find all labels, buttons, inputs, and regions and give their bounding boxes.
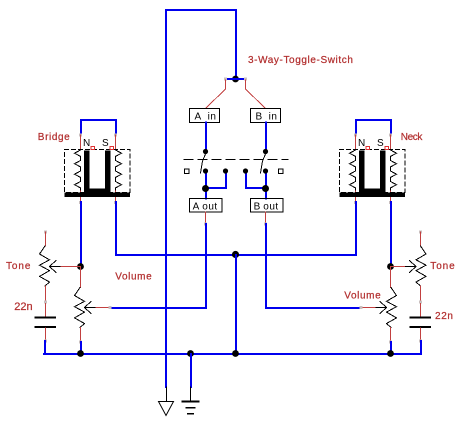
svg-text:N: N <box>83 138 90 149</box>
wire volume left bottom red <box>80 328 82 343</box>
svg-text:22n: 22n <box>435 311 454 322</box>
wire mid bus junction down to ground bus <box>235 255 237 354</box>
node junction A out <box>202 185 209 192</box>
svg-text:Neck: Neck <box>401 132 424 143</box>
pickup neck <box>340 120 406 204</box>
wire volume left to ground bus <box>80 342 82 353</box>
node ground bus dot volume left <box>77 350 84 357</box>
wiper tone left arrow <box>50 261 62 273</box>
wire bridge right terminal to mid bus to neck left terminal <box>116 202 356 255</box>
wire volume right bottom red <box>390 328 392 343</box>
wire neck red top stubs <box>355 135 357 150</box>
wire top loop from toggle common over to signal ground drop <box>166 10 236 387</box>
switch contact B2 <box>263 168 268 173</box>
pin toggle stub right <box>244 78 247 81</box>
wire cap right bottom <box>420 328 422 341</box>
pin tone right bottom <box>419 301 422 304</box>
wire switch A2 contact to A junction <box>206 171 226 188</box>
pin cap left bottom <box>44 340 47 343</box>
switch mechanical dashed link <box>184 159 288 161</box>
node toggle common junction <box>232 76 239 83</box>
switch pole contact B <box>263 149 268 154</box>
resistor tone left body <box>40 246 50 286</box>
pin A out <box>204 223 207 226</box>
potentiometer tone right <box>391 231 427 304</box>
wire left junction to volume top <box>80 267 82 288</box>
switch lever B <box>261 154 266 173</box>
pin volume left bottom <box>79 341 82 344</box>
capacitor right plate bottom <box>410 326 432 328</box>
wire tone right top stub <box>420 232 422 246</box>
node ground bus dot center <box>232 350 239 357</box>
resistor tone right body <box>416 246 426 286</box>
wire neck coil top link <box>356 120 391 135</box>
coil bridge left <box>75 150 81 190</box>
node B in box <box>251 109 281 123</box>
pin bridge top right <box>114 134 117 137</box>
svg-text:Volume: Volume <box>115 272 152 283</box>
pin volume right wiper <box>360 306 363 309</box>
wire bridge red bottom stubs <box>80 190 82 202</box>
wire B in to switch pole <box>265 123 267 152</box>
wire B out red stub <box>265 212 267 224</box>
wire B out down and right to right volume wiper <box>266 224 361 308</box>
ground earth <box>183 387 199 414</box>
capacitor right plate top <box>410 317 432 319</box>
coil bridge right <box>116 150 122 190</box>
wire cap right top <box>420 304 422 317</box>
wire cap left bottom <box>45 328 47 341</box>
svg-text:Tone: Tone <box>430 261 455 272</box>
svg-text:3-Way-Toggle-Switch: 3-Way-Toggle-Switch <box>248 55 354 66</box>
switch S1 3-way toggle <box>184 154 288 173</box>
wire switch B2 contact to B out <box>265 171 267 199</box>
pin cap right bottom <box>419 340 422 343</box>
pin bridge magnet S <box>110 147 114 150</box>
pin bridge bottom left <box>79 201 82 204</box>
pin B out <box>264 223 267 226</box>
wire tone left top stub <box>45 232 47 246</box>
pin tone left top <box>44 231 47 234</box>
node B out box <box>251 199 284 213</box>
wire A out red stub <box>205 212 207 224</box>
wire volume left wiper red <box>96 307 110 309</box>
wire tone left wiper red <box>61 266 81 268</box>
pin toggle stub left <box>224 78 227 81</box>
svg-text:Tone: Tone <box>6 261 31 272</box>
wire red to A in <box>206 80 226 109</box>
capacitor left plate top <box>35 317 57 319</box>
wiper volume right arrow <box>375 302 387 314</box>
pin neck magnet S <box>385 147 389 150</box>
svg-text:Volume: Volume <box>344 291 381 302</box>
svg-text:Bridge: Bridge <box>38 132 71 143</box>
coil neck left <box>350 150 356 190</box>
node A out box <box>190 199 223 213</box>
node ground bus dot volume right <box>387 350 394 357</box>
wire neck right terminal down to right junction <box>390 202 392 266</box>
magnet neck base bar <box>340 193 406 198</box>
pickup neck body dashed box <box>340 150 406 193</box>
pickup bridge <box>65 120 131 204</box>
pin tone right top <box>419 231 422 234</box>
wire earth drop <box>190 354 192 387</box>
node left junction <box>77 263 84 270</box>
switch open terminal right <box>279 169 284 174</box>
wire ground bus <box>44 353 421 355</box>
wire cap left to ground bus <box>44 341 46 353</box>
wire tone left bottom <box>45 286 47 302</box>
node mid bus junction <box>232 251 239 258</box>
svg-text:S: S <box>102 138 109 149</box>
capacitor left plate bottom <box>35 326 57 328</box>
wire cap left top <box>45 304 47 317</box>
pin volume right bottom <box>389 341 392 344</box>
capacitor 22n left <box>35 304 57 354</box>
pin bridge bottom right <box>114 201 117 204</box>
wire switch A1 contact to A out <box>205 171 207 199</box>
switch contact A1 <box>203 168 208 173</box>
wire volume right to ground bus <box>390 342 392 353</box>
pin bridge top left <box>79 134 82 137</box>
wire bridge red top stubs <box>80 135 82 150</box>
switch contact B1 <box>243 168 248 173</box>
potentiometer volume left <box>75 288 112 354</box>
magnet bridge base bar <box>65 193 131 198</box>
wire bridge coil top link <box>81 120 116 135</box>
magnet bridge U core <box>84 151 111 193</box>
wire switch B1 contact to B junction <box>246 171 266 188</box>
wire right junction to volume top <box>390 267 392 288</box>
wire tone right wiper red <box>391 266 405 268</box>
ground signal triangle <box>159 387 174 416</box>
wiper tone right arrow <box>405 261 417 273</box>
pin volume left wiper <box>109 306 112 309</box>
potentiometer tone left <box>40 231 81 304</box>
node ground bus dot earth <box>187 350 194 357</box>
wire volume right wiper red <box>361 307 375 309</box>
node right junction <box>387 263 394 270</box>
wiper volume left arrow <box>85 302 97 314</box>
switch lever A <box>201 154 206 173</box>
svg-text:22n: 22n <box>14 301 32 313</box>
wire A out down and left to volume wiper <box>110 224 206 308</box>
svg-text:Bin: Bin <box>256 112 278 123</box>
pin bridge magnet N <box>91 147 95 150</box>
svg-text:Ain: Ain <box>195 112 217 123</box>
wire cap right to ground bus <box>420 341 422 353</box>
magnet neck U core <box>359 151 386 193</box>
pin neck top left <box>354 134 357 137</box>
potentiometer volume right <box>360 288 397 354</box>
wire bridge left terminal down to left junction <box>80 202 82 266</box>
pin neck top right <box>389 134 392 137</box>
resistor volume right body <box>387 288 397 328</box>
switch open terminal left <box>185 169 190 174</box>
coil neck right <box>391 150 397 190</box>
resistor volume left body <box>75 288 85 328</box>
svg-text:Aout: Aout <box>193 202 218 213</box>
wire tone right bottom <box>420 286 422 302</box>
pin neck bottom left <box>354 201 357 204</box>
pin neck magnet N <box>366 147 370 150</box>
capacitor 22n right <box>410 304 432 354</box>
svg-text:S: S <box>377 138 384 149</box>
wire red to B in <box>246 80 266 109</box>
pin tone left bottom <box>44 301 47 304</box>
node junction B out <box>262 185 269 192</box>
switch contact A2 <box>223 168 228 173</box>
switch pole contact A <box>203 149 208 154</box>
wire toggle common stubs <box>226 78 246 80</box>
pickup bridge body dashed box <box>65 150 131 193</box>
svg-text:N: N <box>358 138 365 149</box>
wire neck red bottom stubs <box>355 190 357 202</box>
svg-text:Bout: Bout <box>254 202 279 213</box>
pin neck bottom right <box>389 201 392 204</box>
wire A in to switch pole <box>205 123 207 152</box>
node A in box <box>190 109 220 123</box>
